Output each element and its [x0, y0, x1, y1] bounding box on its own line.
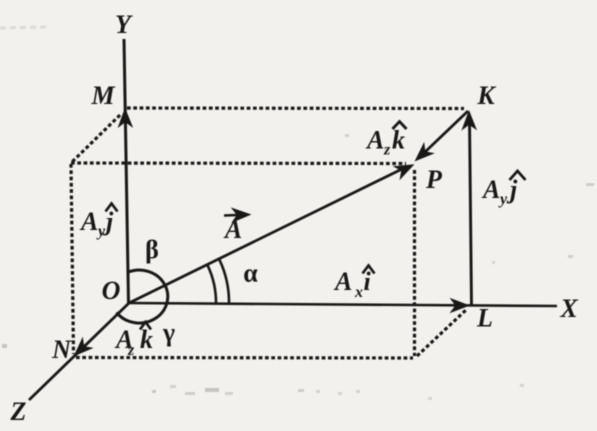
alpha angle inner arc	[207, 265, 216, 305]
svg-text:α: α	[243, 259, 258, 288]
faint scan streak top-left	[0, 27, 46, 28]
svg-text:P: P	[425, 165, 443, 194]
dashed edge L' to P	[413, 170, 416, 356]
svg-text:y: y	[498, 191, 508, 208]
dashed edge L' to L	[417, 309, 467, 356]
dashed edge M to M'	[72, 115, 120, 162]
arrowhead at N (Z axis, down-left)	[68, 337, 94, 362]
arrow over label A	[224, 207, 252, 223]
dashed edge M' to P	[71, 161, 406, 165]
svg-text:M: M	[90, 81, 115, 110]
label Azk top	[365, 122, 407, 159]
svg-text:O: O	[102, 276, 121, 305]
svg-text:γ: γ	[162, 318, 175, 347]
svg-text:y: y	[96, 223, 106, 240]
svg-text:A: A	[333, 267, 352, 296]
alpha angle outer arc	[219, 259, 229, 304]
component arrow K to P	[425, 111, 468, 152]
svg-text:A: A	[79, 207, 98, 236]
svg-text:A: A	[365, 126, 384, 155]
svg-text:z: z	[127, 342, 135, 359]
dashed edge M to K	[127, 106, 464, 110]
label Axi	[333, 266, 375, 302]
svg-text:x: x	[354, 284, 363, 301]
arrowhead at K (up)	[461, 110, 477, 131]
Z axis	[29, 303, 129, 400]
svg-text:L: L	[476, 304, 493, 333]
svg-text:z: z	[383, 142, 391, 159]
vector A from O to P	[129, 169, 403, 304]
svg-text:N: N	[51, 335, 72, 364]
svg-text:Z: Z	[10, 397, 27, 426]
arrowhead at M (Y axis, up)	[117, 107, 133, 128]
dashed edge N to L'	[76, 356, 413, 360]
svg-text:K: K	[476, 81, 496, 110]
svg-text:β: β	[145, 235, 159, 264]
svg-text:k: k	[392, 126, 405, 155]
svg-text:Y: Y	[115, 10, 133, 39]
Y axis	[124, 39, 129, 303]
dashed edge M' to N	[71, 164, 74, 354]
label Ayj left	[79, 204, 118, 241]
arrowhead of K-P arrow (down-left)	[409, 142, 435, 167]
label Azk bottom	[114, 322, 153, 359]
X axis	[129, 303, 557, 306]
arrowhead at L (X axis, right)	[450, 298, 471, 314]
svg-text:X: X	[559, 294, 578, 323]
angle circle arc at O	[117, 270, 168, 323]
svg-text:A: A	[481, 175, 500, 204]
label Ayj right	[481, 171, 526, 208]
component line L to K	[470, 120, 472, 305]
arrowhead at P (vector A, up-right)	[393, 157, 418, 180]
faint smudge marks bottom	[2, 134, 594, 400]
